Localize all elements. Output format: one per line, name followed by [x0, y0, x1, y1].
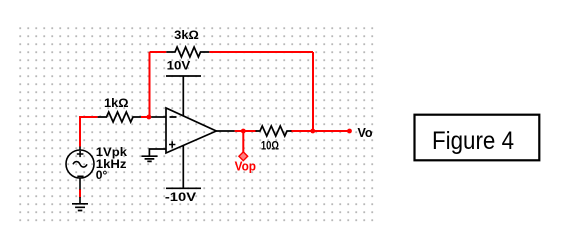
svg-text:10Ω: 10Ω	[261, 138, 279, 152]
wire: probe stem	[242, 131, 244, 153]
op-amp minus input pin stub	[151, 116, 166, 118]
svg-text:-10V: -10V	[165, 190, 196, 204]
resistor 1kOhm	[98, 112, 141, 122]
node C (output / feedback right junction)	[310, 129, 315, 134]
svg-text:10V: 10V	[167, 59, 191, 73]
probe Vop diamond	[239, 152, 248, 161]
AC source V1	[66, 147, 94, 204]
op-amp U1 triangle	[166, 108, 216, 153]
grid background	[16, 24, 377, 225]
ground (op-amp plus input)	[141, 156, 157, 161]
wire: feedback vertical left (node to top)	[149, 52, 151, 117]
sine symbol	[73, 162, 87, 168]
svg-text:3kΩ: 3kΩ	[174, 28, 199, 42]
wire: source bottom red segment	[79, 189, 81, 198]
op-amp minus sign	[170, 116, 177, 118]
wire: 1k resistor to op-amp minus node	[141, 116, 151, 118]
node Vo terminal dot	[347, 129, 352, 134]
op-amp plus sign	[169, 141, 175, 147]
resistor 3kOhm	[166, 47, 209, 57]
plus sign inside source	[77, 151, 84, 157]
wire stub into ground	[79, 197, 81, 204]
source bottom pin stub	[79, 178, 81, 190]
supply rail 10V bar	[166, 75, 201, 77]
svg-text:1kΩ: 1kΩ	[104, 96, 129, 110]
node B (output / probe junction)	[241, 129, 246, 134]
wire: 10 ohm to Vo terminal	[291, 130, 350, 132]
node A (1k / feedback / op-amp minus junction)	[147, 115, 152, 120]
svg-text:Vo: Vo	[358, 126, 373, 140]
op-amp plus input pin wire	[149, 149, 166, 156]
wire: top feedback left segment	[150, 51, 167, 53]
figure caption box	[415, 115, 540, 161]
op-amp positive supply pin	[182, 76, 184, 116]
ground (below source)	[72, 204, 88, 211]
minus sign inside source	[77, 175, 83, 177]
wire: top feedback right segment	[209, 51, 313, 53]
op-amp negative supply pin	[182, 145, 184, 188]
wire: source top to 1k resistor (net red)	[80, 117, 98, 147]
wire: feedback vertical right down to output	[312, 52, 314, 131]
svg-text:0°: 0°	[96, 168, 108, 182]
svg-text:Vop: Vop	[235, 159, 257, 173]
source top pin stub	[79, 147, 81, 151]
svg-text:Figure 4: Figure 4	[432, 127, 514, 155]
wire: op-amp output to 10 ohm	[235, 130, 257, 132]
supply rail -10V bar	[166, 187, 201, 189]
op-amp output pin stub	[216, 130, 234, 132]
resistor 10Ohm	[256, 126, 292, 136]
